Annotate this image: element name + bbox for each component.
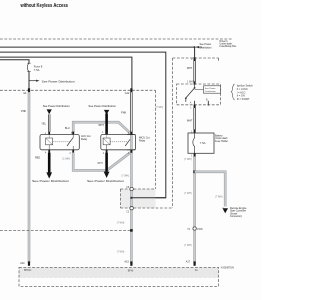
- junction square: [193, 170, 196, 173]
- svg-text:(7 WH): (7 WH): [117, 250, 125, 253]
- smart connector label: [230, 207, 247, 218]
- bottom control unit dashed box: [19, 267, 219, 286]
- svg-text:Relay: Relay: [81, 138, 88, 141]
- node on bus 1: [194, 46, 196, 48]
- svg-text:BPNIC: BPNIC: [24, 269, 32, 272]
- pin 3 of relay 2: [131, 132, 133, 135]
- svg-text:(7 WH): (7 WH): [117, 222, 125, 225]
- pin A17: [194, 261, 196, 265]
- dashed jog: right side of fuse/relay box: [155, 90, 157, 189]
- connector pin G12: [130, 88, 132, 92]
- ignition column: wire exit pin: [194, 57, 196, 61]
- dashed edge top of small box: [120, 188, 155, 190]
- svg-text:See Power Distribution: See Power Distribution: [87, 179, 124, 183]
- svg-text:III = START: III = START: [237, 98, 250, 101]
- dashed harness line: [0, 229, 131, 231]
- pin 2 of relay 2: [106, 150, 108, 153]
- feed arrow to relay 2 (WHT): [88, 104, 116, 135]
- wire: PNK long run from G4: [28, 92, 31, 262]
- relay 2 internals: [103, 135, 131, 150]
- pin below ignition switch: [194, 105, 196, 108]
- junction dot bus2/gray wire: [130, 197, 132, 199]
- see power distribution box inside ignition switch: [195, 86, 221, 93]
- small dashed box gray fill: [120, 189, 155, 208]
- steering lock dashed box top: [173, 57, 219, 59]
- arrow down from relay2 pin 2: [104, 153, 110, 178]
- svg-text:Distribution: Distribution: [200, 47, 213, 50]
- pin below fuse holder: [194, 153, 196, 157]
- pin 5 of relay 1: [72, 132, 74, 135]
- svg-text:A17: A17: [186, 260, 191, 263]
- fuse/relay box dashed bottom edge: [0, 89, 156, 91]
- fuse 8 feed wire: [0, 60, 29, 63]
- svg-text:(7 WH): (7 WH): [184, 244, 192, 247]
- steering column dashed edge: [172, 58, 174, 208]
- wire: gray run from fuse holder down: [193, 157, 196, 264]
- label: Fuse 8 7.5A: [34, 65, 43, 73]
- svg-text:(7 WH): (7 WH): [121, 175, 129, 178]
- fuse holder label: [215, 135, 228, 143]
- fuse F8: [27, 63, 30, 89]
- arrow: see power distribution (fuse 8): [29, 80, 75, 84]
- relay 2 box edge over wire: [127, 135, 136, 150]
- wire WHT to ignition switch: [194, 61, 196, 82]
- bus wire 2 return segment over fill: [131, 197, 165, 199]
- wire: branch right to smart connector: [195, 172, 226, 207]
- svg-text:PNK: PNK: [21, 110, 26, 113]
- svg-text:Fuse Holder: Fuse Holder: [215, 140, 228, 143]
- svg-text:WHT: WHT: [97, 162, 103, 165]
- svg-text:without Keyless Access: without Keyless Access: [20, 3, 68, 9]
- connector circle (bottom): [130, 207, 133, 210]
- svg-text:WHT: WHT: [187, 120, 193, 123]
- svg-text:See Power Distribution: See Power Distribution: [43, 104, 70, 108]
- svg-text:N IGNITION: N IGNITION: [221, 266, 234, 269]
- arrow: see power distribution (bus 1): [196, 43, 213, 50]
- wire: relay1 pin2 to relay2 pin4: [73, 153, 130, 171]
- svg-text:7.5A: 7.5A: [200, 141, 206, 145]
- svg-text:I/A: I/A: [195, 269, 198, 272]
- svg-text:PNK: PNK: [121, 112, 126, 115]
- pin A10: [28, 261, 30, 265]
- dashed edge left of small box: [119, 189, 121, 208]
- svg-text:G12: G12: [125, 92, 130, 95]
- dashed edge bottom of small box: [120, 207, 172, 209]
- relay 1 box (ACC cut relay): [40, 135, 79, 150]
- battery fuse holder box: [188, 133, 214, 153]
- pin 2 of relay 1: [72, 150, 74, 153]
- svg-text:See Power Distribution: See Power Distribution: [42, 80, 75, 84]
- svg-text:Fuse/Relay Box: Fuse/Relay Box: [220, 45, 238, 48]
- pin 4 tick redraw: [131, 150, 133, 153]
- label: Driver's Under-dash Fuse/Relay Box: [220, 40, 238, 48]
- svg-text:See Power: See Power: [205, 87, 216, 90]
- svg-text:See Power Distribution: See Power Distribution: [32, 179, 69, 183]
- svg-text:BPNI: BPNI: [128, 269, 134, 272]
- pin A15: [130, 261, 132, 265]
- pin 1 of relay 2: [106, 132, 108, 135]
- steering lock right stub: [218, 58, 220, 62]
- svg-text:(7 WH): (7 WH): [184, 192, 192, 195]
- junction square on gray wire: [130, 229, 133, 232]
- relay 1 label: [81, 135, 91, 141]
- connector pin G4: [28, 88, 30, 92]
- pin 1 of relay 1: [48, 132, 50, 135]
- pin into ignition switch: [194, 81, 196, 84]
- svg-text:YEL: YEL: [41, 122, 46, 125]
- fuse/relay box dashed top edge: [0, 38, 232, 40]
- feed arrow to relay 1: [43, 104, 70, 114]
- svg-text:Relay: Relay: [139, 139, 146, 142]
- svg-text:(1 WH): (1 WH): [62, 157, 70, 160]
- svg-text:7.5A: 7.5A: [34, 68, 40, 72]
- wire WHT to fuse holder: [194, 108, 196, 130]
- svg-text:RED: RED: [35, 157, 40, 160]
- wire: YEL: [48, 114, 50, 131]
- svg-text:C506: C506: [197, 228, 203, 231]
- ignition switch dashed box: [177, 84, 221, 105]
- ignition switch contact: [185, 85, 208, 106]
- svg-text:A15: A15: [125, 261, 130, 264]
- wire: BLU branch from relay1 pin5 up and right: [73, 122, 131, 134]
- svg-text:WHT: WHT: [98, 124, 104, 127]
- pin 4 of relay 1: [48, 150, 50, 153]
- svg-text:See Power Distribution: See Power Distribution: [88, 104, 116, 108]
- arrow down from relay1 pin 4 (RED to power dist): [46, 153, 52, 179]
- fuse symbol inside: [193, 133, 206, 153]
- relay 1 internals: [46, 135, 74, 150]
- svg-text:1 WHT: 1 WHT: [187, 81, 195, 83]
- connector circle C8 (top): [130, 187, 133, 190]
- svg-text:WHT: WHT: [187, 67, 193, 70]
- relay 2 label: [139, 136, 150, 142]
- pin 4 of relay 2: [131, 150, 133, 153]
- bus wire 3: [0, 57, 132, 89]
- ignition legend bracket: [231, 84, 234, 100]
- svg-text:Connector): Connector): [230, 215, 242, 218]
- svg-text:BLU: BLU: [65, 127, 70, 130]
- bus wire 1: [0, 47, 195, 58]
- pin 3 tick redraw: [131, 132, 133, 135]
- svg-text:A10: A10: [20, 262, 25, 265]
- ignition legend text: [237, 85, 254, 101]
- arrow into smart connector: [223, 208, 229, 213]
- relay 2 box (MICU cut relay): [101, 135, 136, 150]
- connector C506 on left gray run: [193, 227, 196, 230]
- svg-text:(7 WH): (7 WH): [156, 107, 164, 109]
- wire: long gray run from relay2 pin4 down: [130, 135, 133, 264]
- pin into fuse holder: [194, 129, 196, 133]
- svg-text:Distribution: Distribution: [205, 90, 217, 93]
- bus wire 2: [0, 52, 166, 198]
- wire: PNK from G12 to relay 2: [131, 92, 133, 134]
- svg-text:(7 WH): (7 WH): [184, 158, 192, 161]
- svg-text:(7 WH): (7 WH): [215, 195, 223, 198]
